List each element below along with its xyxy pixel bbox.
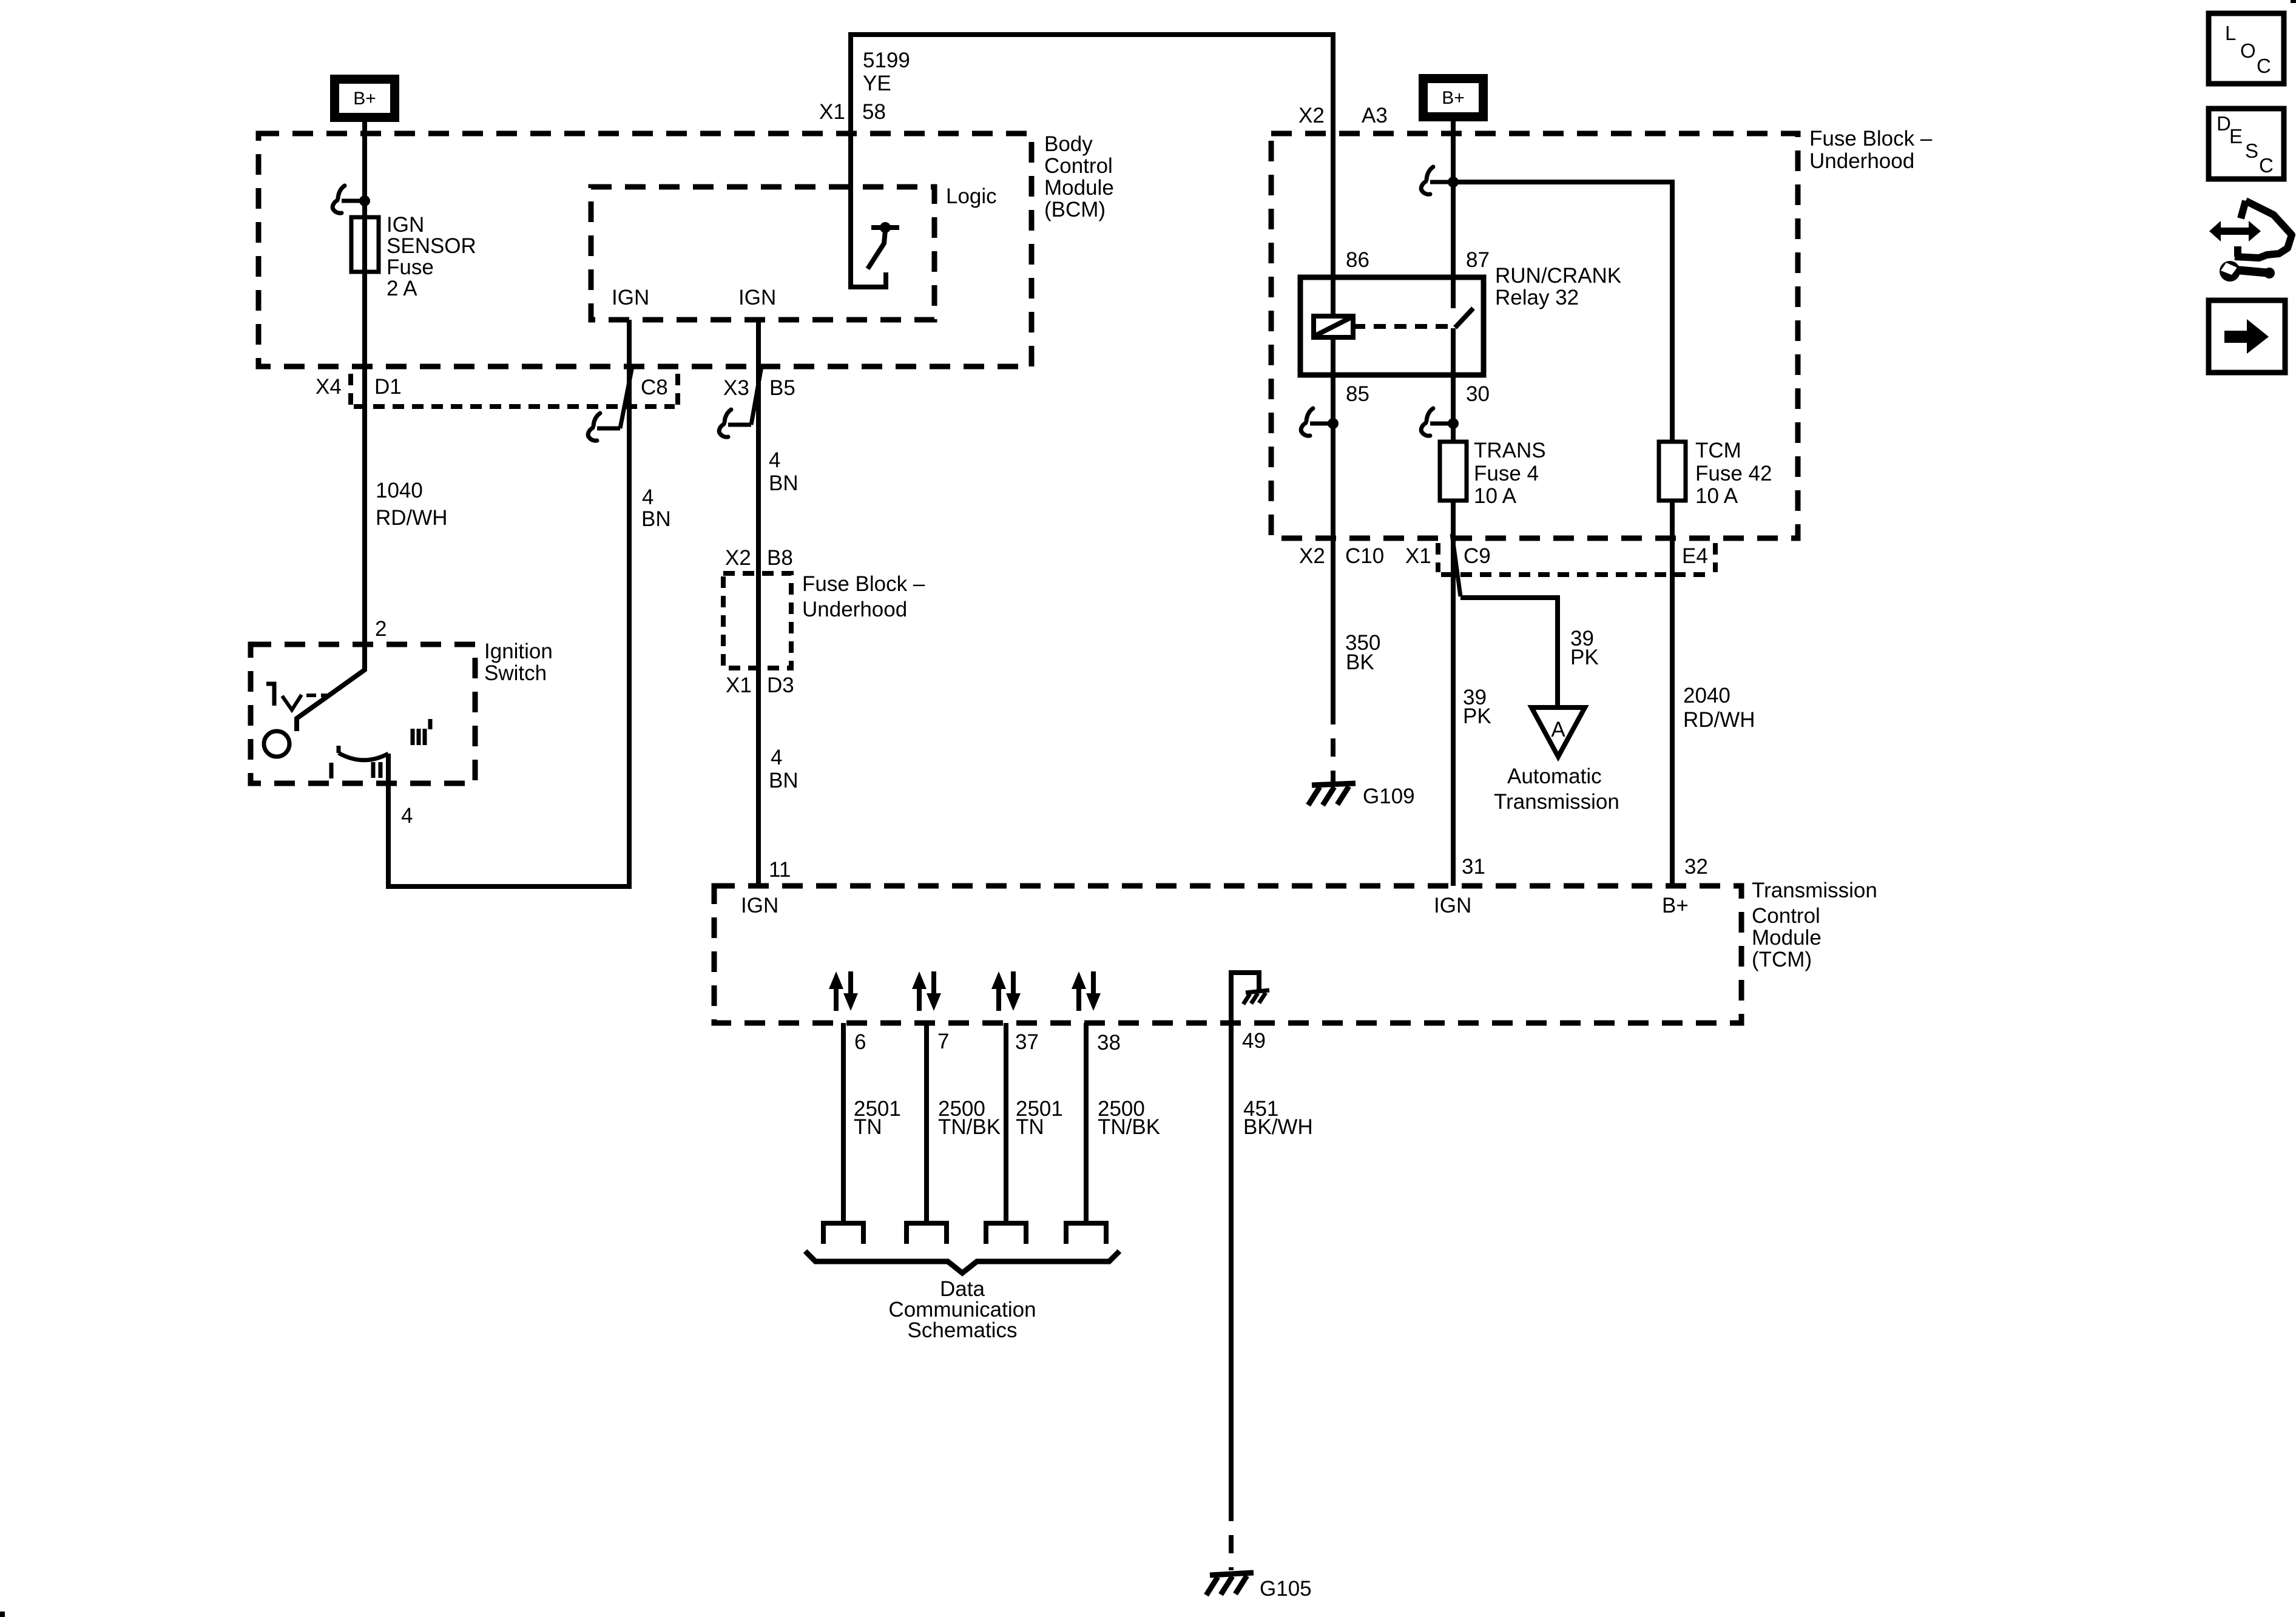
terminal cup pin 37 wire <box>986 1223 1026 1244</box>
svg-text:D1: D1 <box>374 375 402 399</box>
svg-text:Schematics: Schematics <box>908 1318 1018 1342</box>
svg-text:TN/BK: TN/BK <box>938 1115 1001 1139</box>
svg-text:X1: X1 <box>819 100 845 124</box>
svg-text:Ignition: Ignition <box>484 640 553 663</box>
label 39 PK (pin 31 wire) <box>1463 686 1491 728</box>
TCM internal ground at pin 49 <box>1231 973 1269 1007</box>
svg-text:IGN: IGN <box>1434 894 1471 917</box>
data link arrow pair pin 37 <box>991 971 1021 1011</box>
B+ power terminal (left) <box>330 75 399 122</box>
svg-text:Fuse 4: Fuse 4 <box>1474 462 1539 485</box>
svg-text:G105: G105 <box>1260 1577 1312 1601</box>
wire: TCM pin 38 to data link <box>1084 1023 1089 1223</box>
svg-text:30: 30 <box>1466 382 1490 406</box>
ignition position IV mark <box>266 684 328 710</box>
svg-text:BK/WH: BK/WH <box>1243 1115 1313 1139</box>
fuse IGN SENSOR Fuse 2 A <box>351 213 476 300</box>
svg-text:TCM: TCM <box>1695 439 1741 462</box>
ignition switch contact circle <box>264 731 289 757</box>
svg-text:Control: Control <box>1752 904 1820 928</box>
connector strip X2 C10 / X1 C9 / E4 <box>1299 543 1715 575</box>
svg-text:PK: PK <box>1463 704 1491 728</box>
svg-text:Underhood: Underhood <box>802 598 907 621</box>
svg-text:87: 87 <box>1466 248 1490 272</box>
wire labels 2501 TN / 2500 TN/BK <box>854 1097 1160 1139</box>
svg-text:Automatic: Automatic <box>1507 765 1602 788</box>
Fuse Block - Underhood pass-through box <box>723 572 925 668</box>
inline connector branch at C9 to automatic transmission <box>1452 534 1460 596</box>
svg-text:32: 32 <box>1684 855 1708 879</box>
svg-text:(TCM): (TCM) <box>1752 948 1812 971</box>
splice clip S-left on B+ feed <box>333 186 370 213</box>
label 1040 RD/WH <box>376 479 448 530</box>
wire: C9 branch to A connector (39 PK) <box>1460 598 1558 707</box>
svg-text:A3: A3 <box>1362 104 1388 127</box>
svg-text:X1: X1 <box>1405 544 1431 568</box>
svg-text:BN: BN <box>641 507 671 531</box>
wire: TCM pin 7 to data link <box>924 1023 929 1223</box>
svg-text:X3: X3 <box>723 376 749 400</box>
svg-text:O: O <box>2240 39 2256 62</box>
svg-text:IGN: IGN <box>741 894 778 917</box>
svg-text:4: 4 <box>769 448 780 472</box>
svg-text:IGN: IGN <box>612 286 649 309</box>
Fuse Block - Underhood box (right) <box>1271 127 1933 538</box>
pin label X2 B8 <box>725 546 793 570</box>
Body Control Module (BCM) box <box>258 132 1114 366</box>
svg-text:31: 31 <box>1462 855 1485 879</box>
svg-text:Fuse Block –: Fuse Block – <box>1809 127 1933 150</box>
splice clip on pin 85 wire <box>1301 408 1339 436</box>
svg-text:X2: X2 <box>1298 104 1325 127</box>
ignition position III mark <box>413 719 430 745</box>
icon hand/wrench with double arrow <box>2209 201 2292 282</box>
svg-text:Switch: Switch <box>484 661 547 685</box>
svg-text:10 A: 10 A <box>1695 484 1738 508</box>
svg-text:IGN: IGN <box>738 286 776 309</box>
svg-text:X2: X2 <box>725 546 751 570</box>
stray mark bottom-left <box>0 1612 5 1617</box>
svg-text:E: E <box>2229 125 2243 147</box>
wire: ignition pin 4 to BCM C8 wire <box>388 754 632 886</box>
svg-text:Logic: Logic <box>946 184 997 208</box>
wire: branch to TCM Fuse 42 and down to TCM pin 32 (2040 RD/WH) <box>1453 182 1672 886</box>
svg-text:X1: X1 <box>726 673 752 697</box>
icon DESC <box>2209 109 2284 179</box>
label 2040 RD/WH <box>1683 684 1755 732</box>
svg-text:Transmission: Transmission <box>1752 879 1877 902</box>
svg-text:G109: G109 <box>1363 785 1415 808</box>
svg-text:4: 4 <box>771 746 782 769</box>
connector A: Automatic Transmission <box>1494 707 1619 814</box>
ignition position II mark <box>373 762 380 778</box>
svg-text:10 A: 10 A <box>1474 484 1517 508</box>
relay coil <box>1314 277 1353 375</box>
svg-text:2: 2 <box>375 617 387 641</box>
label 5199 YE <box>863 49 910 95</box>
svg-text:Fuse: Fuse <box>387 255 434 279</box>
wire: TCM pin 49 to G105 (451 BK/WH) <box>1229 1007 1234 1503</box>
wire: TCM pin 37 to data link <box>1004 1023 1008 1223</box>
ignition position I mark <box>329 763 334 778</box>
data link arrow pair pin 6 <box>829 971 858 1011</box>
svg-text:Transmission: Transmission <box>1494 790 1619 814</box>
svg-text:C10: C10 <box>1345 544 1384 568</box>
svg-text:C: C <box>2259 154 2274 177</box>
svg-text:Body: Body <box>1044 132 1093 156</box>
label 350 BK <box>1345 631 1380 674</box>
fuse TRANS Fuse 4 10 A <box>1440 439 1546 508</box>
svg-text:2040: 2040 <box>1683 684 1730 707</box>
svg-text:C9: C9 <box>1464 544 1491 568</box>
svg-text:5199: 5199 <box>863 49 910 72</box>
wire: relay pin 85 down to G109 (350 BK) <box>1331 375 1335 706</box>
pin label X1 58 <box>819 100 886 124</box>
TCM pin labels 31 / 32 / 11 and node names <box>741 855 1708 917</box>
svg-text:A: A <box>1551 718 1565 741</box>
svg-text:X2: X2 <box>1299 544 1325 568</box>
svg-text:E4: E4 <box>1682 544 1708 568</box>
label 451 BK/WH <box>1243 1097 1313 1139</box>
wire: BCM IGN output through X3 B5 (4 BN) <box>756 320 761 886</box>
label 39 PK (branch) <box>1570 627 1599 669</box>
svg-text:11: 11 <box>769 858 791 882</box>
svg-text:TRANS: TRANS <box>1474 439 1546 462</box>
data link arrow pair pin 7 <box>912 971 941 1011</box>
icon arrow <box>2209 300 2285 373</box>
B+ power terminal (right) <box>1419 74 1488 121</box>
svg-text:PK: PK <box>1570 646 1599 669</box>
fuse TCM Fuse 42 10 A <box>1659 439 1772 508</box>
wire 5199 YE: logic driver to relay coil pin 86 feed <box>851 35 1333 287</box>
wire: B+ down to relay pin 87 <box>1451 121 1456 308</box>
inline connector at B5 <box>719 366 761 437</box>
Ignition Switch box <box>251 640 553 783</box>
svg-text:Fuse Block –: Fuse Block – <box>802 572 925 596</box>
svg-text:B+: B+ <box>353 89 376 109</box>
relay contact blade <box>1455 308 1473 328</box>
pin label X1 D3 <box>726 673 794 697</box>
svg-text:6: 6 <box>854 1030 866 1054</box>
svg-text:TN: TN <box>1016 1115 1044 1139</box>
stray mark top-right <box>2291 0 2296 3</box>
terminal cup pin 6 wire <box>823 1223 863 1244</box>
svg-text:Relay 32: Relay 32 <box>1495 286 1579 309</box>
label 4 BN (C8 wire) <box>641 485 671 531</box>
splice clip on pin 30 wire <box>1421 408 1459 436</box>
svg-text:TN/BK: TN/BK <box>1098 1115 1160 1139</box>
ignition position arc <box>339 746 388 760</box>
svg-text:RD/WH: RD/WH <box>1683 708 1755 732</box>
terminal cup pin 38 wire <box>1066 1223 1106 1244</box>
svg-text:38: 38 <box>1097 1031 1121 1055</box>
svg-text:Underhood: Underhood <box>1809 149 1914 173</box>
svg-text:RD/WH: RD/WH <box>376 506 448 530</box>
brace for data communication schematics <box>805 1251 1119 1273</box>
svg-text:2 A: 2 A <box>387 277 417 300</box>
Logic box inside BCM <box>591 184 997 320</box>
svg-text:RUN/CRANK: RUN/CRANK <box>1495 264 1621 288</box>
svg-text:TN: TN <box>854 1115 882 1139</box>
wire: relay pin 30 through TRANS fuse down to TCM pin 31 (39 PK) <box>1451 328 1456 886</box>
svg-text:L: L <box>2225 22 2236 44</box>
svg-text:B8: B8 <box>767 546 793 570</box>
wire: BCM IGN output through C8 (4 BN) <box>627 320 632 886</box>
svg-text:37: 37 <box>1015 1030 1039 1054</box>
svg-text:B5: B5 <box>769 376 795 400</box>
wire: B+ feed down to ignition switch (1040 RD/WH) <box>297 122 365 731</box>
svg-text:7: 7 <box>937 1030 949 1053</box>
svg-text:BK: BK <box>1346 650 1374 674</box>
pin labels 6 7 37 38 <box>854 1030 1121 1055</box>
svg-text:85: 85 <box>1346 382 1369 406</box>
connector strip X4/D1...C8 under BCM <box>316 374 795 407</box>
svg-text:Module: Module <box>1752 926 1822 950</box>
svg-text:(BCM): (BCM) <box>1044 198 1106 221</box>
logic driver switch symbol <box>868 222 899 269</box>
svg-text:B+: B+ <box>1442 88 1465 108</box>
svg-text:C: C <box>2257 55 2271 77</box>
splice with branch to TCM fuse <box>1421 167 1459 194</box>
svg-text:B+: B+ <box>1662 894 1689 917</box>
inline connector at C8 <box>588 366 632 441</box>
svg-text:SENSOR: SENSOR <box>387 234 476 258</box>
label 4 BN (B5 wire lower) <box>769 746 799 792</box>
svg-text:BN: BN <box>769 471 799 495</box>
label 4 BN (B5 wire upper) <box>769 448 799 495</box>
ground G105 <box>1206 1573 1312 1601</box>
svg-text:C8: C8 <box>641 376 668 399</box>
svg-text:Control: Control <box>1044 154 1113 178</box>
wire: TCM pin 6 to data link <box>841 1023 846 1223</box>
svg-text:Module: Module <box>1044 176 1114 200</box>
pin label X2 A3 <box>1298 104 1388 127</box>
svg-text:4: 4 <box>642 485 653 509</box>
relay linkage (dashed) <box>1353 324 1449 329</box>
svg-text:1040: 1040 <box>376 479 423 502</box>
svg-text:4: 4 <box>401 804 413 828</box>
svg-text:D3: D3 <box>767 673 794 697</box>
terminal cup pin 7 wire <box>907 1223 947 1244</box>
svg-text:58: 58 <box>862 100 886 124</box>
svg-text:BN: BN <box>769 769 799 792</box>
svg-text:IGN: IGN <box>387 213 424 237</box>
svg-text:S: S <box>2245 140 2258 162</box>
svg-text:Fuse 42: Fuse 42 <box>1695 462 1772 485</box>
svg-text:49: 49 <box>1242 1029 1266 1053</box>
data link arrow pair pin 38 <box>1072 971 1101 1011</box>
icon LOC <box>2209 13 2284 84</box>
svg-text:X4: X4 <box>316 375 342 399</box>
ground G109 <box>1308 783 1415 808</box>
svg-text:86: 86 <box>1346 248 1369 272</box>
svg-text:YE: YE <box>863 72 891 95</box>
Transmission Control Module (TCM) box <box>714 879 1877 1023</box>
RUN/CRANK Relay 32 <box>1300 248 1621 406</box>
